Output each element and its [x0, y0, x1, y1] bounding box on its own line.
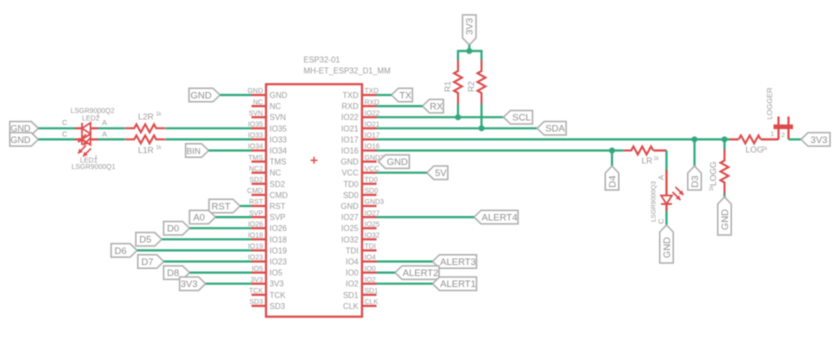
junction LOGG branch: [722, 136, 728, 142]
svg-text:D0: D0: [167, 224, 179, 235]
svg-text:1k: 1k: [762, 146, 768, 152]
svg-text:IO23: IO23: [270, 258, 288, 267]
svg-text:TXD: TXD: [365, 88, 379, 95]
svg-text:IO35: IO35: [270, 124, 288, 133]
svg-text:IO5: IO5: [270, 269, 283, 278]
svg-text:C: C: [62, 118, 68, 127]
svg-text:RST: RST: [270, 202, 286, 211]
svg-text:LOG: LOG: [746, 145, 764, 155]
wire D3 drop: [693, 139, 695, 166]
wire IO17 to LOG resistor: [730, 138, 739, 140]
svg-text:TDI: TDI: [365, 244, 376, 251]
U1 left pin IO23 row 16: [248, 255, 288, 267]
svg-text:L1R: L1R: [138, 145, 154, 155]
U1 left pin NC row 8: [249, 166, 281, 178]
wire LR to corner: [653, 149, 666, 151]
U1 left pin IO33 row 5: [248, 133, 288, 145]
net label A0: [190, 210, 216, 224]
svg-text:TCK: TCK: [270, 291, 287, 300]
svg-text:TCK: TCK: [249, 288, 263, 295]
wire LED3 cathode to GND: [665, 211, 667, 225]
svg-text:3V3: 3V3: [811, 135, 828, 146]
U1 right pin GND row 11: [341, 199, 384, 211]
wire D7 to U1 pin: [164, 260, 252, 262]
LED LED2: [75, 123, 98, 146]
svg-text:GND: GND: [720, 209, 731, 230]
U1 right pin IO32 row 14: [341, 233, 380, 245]
svg-text:GND: GND: [11, 135, 32, 145]
svg-text:TX: TX: [399, 90, 412, 101]
svg-text:A: A: [102, 130, 107, 139]
U1 left pin SVN row 3: [249, 110, 287, 122]
connector LOGGER 2-pin header: [774, 117, 794, 140]
net label ALERT3: [433, 255, 477, 269]
wire rail to R1: [457, 51, 459, 60]
svg-text:D5: D5: [139, 235, 151, 246]
IC U1 ESP32-01 body: [266, 84, 362, 317]
svg-text:D6: D6: [115, 246, 127, 257]
U1 left pin IO35 row 4: [248, 122, 288, 134]
net label SCL: [504, 110, 533, 124]
svg-text:IO21: IO21: [341, 124, 359, 133]
svg-text:SVN: SVN: [249, 110, 263, 117]
svg-text:SCL: SCL: [512, 113, 530, 124]
resistor R1: [443, 60, 463, 104]
net label D5: [136, 233, 162, 247]
U1 right pin IO25 row 13: [341, 221, 380, 233]
svg-text:SD1: SD1: [365, 288, 379, 295]
svg-text:3V3: 3V3: [251, 277, 264, 284]
wire L1R to U1 IO33: [165, 138, 251, 140]
net label GND (below LOGG): [718, 197, 732, 235]
wire U1 IO0 to ALERT2: [377, 272, 396, 274]
svg-text:TXD: TXD: [343, 91, 359, 100]
wire U1 IO22 to SCL: [377, 116, 504, 118]
svg-text:NC: NC: [253, 99, 263, 106]
wire D0 to U1 pin: [190, 227, 252, 229]
net label TX: [391, 88, 412, 102]
wire D8 to U1 pin: [190, 272, 252, 274]
wire RST to U1 pin: [240, 205, 252, 207]
svg-text:SDA: SDA: [545, 124, 565, 135]
wire U1 IO17 long net: [377, 138, 731, 140]
svg-text:C: C: [62, 130, 68, 139]
wire D6 to U1 pin: [137, 249, 251, 251]
U1 left pin IO34 row 6: [248, 144, 288, 156]
svg-text:SD2: SD2: [270, 180, 286, 189]
svg-text:3V3: 3V3: [270, 280, 285, 289]
resistor LOG: [739, 135, 764, 154]
net label GND (below LED3): [660, 225, 674, 263]
U1 left pin SVP row 12: [249, 210, 286, 222]
svg-text:C: C: [657, 218, 666, 224]
wire U1 IO2 to ALERT1: [377, 283, 433, 285]
svg-text:GND: GND: [387, 157, 408, 168]
U1 left pin TCK row 19: [249, 288, 286, 300]
svg-text:IO17: IO17: [341, 135, 359, 144]
svg-text:LOGG: LOGG: [708, 161, 718, 186]
wire LOG to LOGGER pin 1: [761, 138, 779, 140]
U1 right pin IO17 row 5: [341, 133, 380, 145]
IC U1 origin cross: [311, 157, 318, 164]
svg-text:SD2: SD2: [249, 177, 263, 184]
svg-text:1: 1: [97, 113, 100, 119]
svg-text:TD0: TD0: [365, 177, 378, 184]
wire U1 VCC to 5V: [377, 172, 427, 174]
wire pullup top rail: [457, 50, 483, 52]
svg-text:ALERT2: ALERT2: [403, 268, 439, 279]
U1 left pin 3V3 row 18: [251, 277, 285, 289]
wire corner down to LED3: [665, 151, 667, 173]
wire U1 TXD to TX: [377, 94, 392, 96]
svg-text:ALERT3: ALERT3: [440, 257, 476, 268]
wire 3V3 tag drop: [468, 45, 470, 51]
svg-text:3V3: 3V3: [181, 279, 198, 290]
svg-text:1: 1: [771, 131, 775, 138]
net label D3: [688, 166, 702, 190]
svg-text:SD0: SD0: [365, 188, 379, 195]
svg-text:LOGGER: LOGGER: [765, 87, 774, 120]
svg-text:SD0: SD0: [343, 191, 359, 200]
resistor L2R: [125, 111, 165, 132]
U1 right pin VCC row 8: [342, 166, 380, 178]
svg-text:IO2: IO2: [365, 277, 376, 284]
svg-text:1: 1: [95, 155, 98, 161]
wire LED1 anode to L1R: [98, 138, 125, 140]
U1 right pin IO4 row 16: [346, 255, 377, 267]
net label ALERT2: [395, 266, 439, 280]
svg-text:TMS: TMS: [270, 158, 287, 167]
junction D3 branch: [692, 136, 698, 142]
wire R2 to SDA net: [480, 104, 482, 128]
LED LED3: [661, 187, 684, 211]
svg-text:IO0: IO0: [346, 269, 359, 278]
svg-text:ALERT4: ALERT4: [482, 213, 518, 224]
net label D4: [605, 166, 619, 190]
svg-text:GND: GND: [190, 90, 211, 101]
svg-text:IO4: IO4: [365, 255, 376, 262]
svg-text:TD0: TD0: [343, 180, 359, 189]
svg-text:IO0: IO0: [365, 266, 376, 273]
U1 right pin SD1 row 19: [343, 288, 378, 300]
svg-text:IO4: IO4: [346, 258, 359, 267]
svg-text:SVP: SVP: [270, 213, 286, 222]
U1 left pin SD3 row 20: [249, 299, 285, 311]
U1 right pin SD0 row 10: [343, 188, 378, 200]
svg-text:RST: RST: [212, 201, 231, 212]
net label D0: [164, 221, 190, 235]
svg-text:A: A: [102, 118, 107, 127]
U1 right pin TDI row 15: [346, 244, 377, 256]
wire R1 to SCL net: [457, 104, 459, 117]
U1 left pin GND row 1: [247, 88, 287, 100]
svg-text:IO2: IO2: [346, 280, 359, 289]
svg-text:BIN: BIN: [187, 146, 201, 156]
svg-text:LSGR9000Q2: LSGR9000Q2: [71, 108, 115, 115]
wire U1 RXD to RX: [377, 105, 423, 107]
svg-text:SD1: SD1: [343, 291, 359, 300]
resistor LOGG: [708, 150, 729, 194]
svg-text:NC2: NC2: [249, 166, 263, 173]
svg-text:IO16: IO16: [341, 147, 359, 156]
svg-text:RX: RX: [430, 102, 444, 113]
svg-text:A: A: [657, 175, 666, 180]
U1 left pin IO19 row 15: [248, 244, 288, 256]
svg-text:D3: D3: [690, 175, 701, 187]
svg-text:3V3: 3V3: [465, 18, 476, 35]
net label GND (LED1 cathode): [10, 133, 39, 147]
wire U1 IO4 to ALERT3: [377, 260, 433, 262]
U1 left pin RST row 11: [249, 199, 286, 211]
svg-text:CMD: CMD: [247, 188, 263, 195]
junction R1/IO22: [455, 114, 461, 120]
svg-text:2: 2: [781, 132, 785, 139]
wire D4 drop: [611, 151, 613, 167]
LED LED1: [75, 134, 98, 157]
svg-text:VCC: VCC: [342, 169, 359, 178]
svg-text:CLK: CLK: [343, 302, 359, 311]
wire D5 to U1 pin: [162, 238, 252, 240]
svg-text:5V: 5V: [435, 168, 447, 179]
net label GND (top left): [189, 88, 220, 102]
svg-text:GND3: GND3: [365, 199, 385, 206]
U1 left pin CMD row 10: [247, 188, 288, 200]
net label 3V3: [180, 277, 206, 291]
svg-text:SD3: SD3: [270, 302, 286, 311]
net label D7: [138, 255, 164, 269]
wire LED2 anode to L2R: [98, 127, 125, 129]
junction R2/IO21: [479, 125, 485, 131]
wire LOGG to GND: [723, 194, 725, 198]
net label BIN: [186, 144, 209, 158]
svg-text:LSGR9000Q1: LSGR9000Q1: [72, 164, 116, 171]
svg-text:LR: LR: [642, 156, 653, 166]
resistor LR: [623, 147, 653, 166]
wire U1 IO21 to SDA: [377, 127, 538, 129]
net label D8: [164, 266, 190, 280]
svg-text:IO25: IO25: [341, 224, 359, 233]
wire GND to LED2 cathode: [38, 127, 75, 129]
net label RX: [422, 99, 443, 113]
svg-text:IO19: IO19: [270, 246, 288, 255]
svg-text:D8: D8: [167, 268, 179, 279]
svg-text:IO33: IO33: [270, 135, 288, 144]
junction 3V3 rail: [466, 48, 472, 54]
svg-text:IO18: IO18: [270, 235, 288, 244]
wire U1 IO27 to ALERT4: [377, 216, 475, 218]
svg-text:IO34: IO34: [270, 147, 288, 156]
net label ALERT1: [433, 277, 477, 291]
wire LOGGER pin2 to 3V3: [789, 138, 802, 140]
wire LOGG drop: [723, 139, 725, 149]
wire LED3 anode lead: [665, 170, 667, 188]
U1 right pin IO22 row 3: [341, 110, 380, 122]
svg-text:IO26: IO26: [270, 224, 288, 233]
svg-text:MH-ET_ESP32_D1_MM: MH-ET_ESP32_D1_MM: [304, 67, 391, 76]
net label SDA: [537, 122, 566, 136]
svg-text:GND: GND: [341, 158, 359, 167]
wire GND to U1 GND pin: [220, 94, 252, 96]
net label GND (LED2 cathode): [10, 122, 39, 136]
U1 right pin RXD row 2: [342, 99, 380, 111]
U1 left pin IO26 row 13: [248, 221, 288, 233]
svg-text:IO32: IO32: [365, 233, 380, 240]
svg-text:R2: R2: [466, 81, 476, 92]
svg-text:ESP32-01: ESP32-01: [304, 56, 341, 65]
svg-text:IO32: IO32: [341, 235, 359, 244]
U1 right pin TXD row 1: [343, 88, 379, 100]
svg-text:SD3: SD3: [249, 299, 263, 306]
net label 3V3 (far right): [801, 133, 830, 147]
wire A0 to U1 pin: [216, 216, 252, 218]
svg-text:D4: D4: [607, 175, 618, 187]
U1 right pin GND row 7: [341, 155, 384, 167]
U1 right pin IO0 row 17: [346, 266, 377, 278]
net label GND (VCC side): [378, 155, 409, 169]
svg-text:IO22: IO22: [341, 113, 359, 122]
wire BIN to U1 IO34: [209, 149, 252, 151]
U1 right pin IO27 row 12: [341, 210, 380, 222]
svg-text:IO5: IO5: [252, 266, 263, 273]
U1 right pin IO2 row 18: [346, 277, 377, 289]
svg-text:R1: R1: [443, 81, 453, 92]
net label ALERT4: [474, 210, 518, 224]
svg-text:1k: 1k: [709, 185, 715, 191]
wire rail to R2: [480, 51, 482, 60]
net label 5V: [427, 166, 448, 180]
U1 left pin IO18 row 14: [248, 233, 288, 245]
svg-text:1k: 1k: [156, 112, 162, 118]
wire U1 IO16 long net: [377, 149, 624, 151]
wire 3V3 to U1 pin: [206, 283, 252, 285]
svg-text:NC: NC: [270, 169, 282, 178]
junction D4 branch: [609, 148, 615, 154]
resistor R2: [466, 60, 486, 104]
svg-text:NC: NC: [270, 102, 282, 111]
svg-text:GND: GND: [341, 202, 359, 211]
svg-text:IO25: IO25: [365, 221, 380, 228]
U1 left pin IO5 row 17: [252, 266, 283, 278]
net label 3V3 (pullup supply): [463, 15, 477, 45]
svg-text:A0: A0: [193, 213, 205, 224]
svg-text:TMS: TMS: [248, 155, 263, 162]
net label RST: [209, 199, 240, 213]
U1 right pin IO21 row 4: [341, 122, 380, 134]
svg-text:CLK: CLK: [365, 299, 379, 306]
resistor L1R: [125, 135, 165, 155]
wire GND to LED1 cathode: [38, 138, 75, 140]
U1 right pin IO16 row 6: [341, 144, 380, 156]
svg-text:GND: GND: [270, 91, 288, 100]
svg-text:GND: GND: [662, 237, 673, 258]
wire L2R to U1 IO35: [165, 127, 251, 129]
U1 left pin NC row 2: [252, 99, 282, 111]
U1 left pin SD2 row 9: [249, 177, 285, 189]
svg-text:IO27: IO27: [341, 213, 359, 222]
U1 left pin TMS row 7: [248, 155, 286, 167]
svg-text:1k: 1k: [654, 156, 660, 162]
U1 right pin CLK row 20: [343, 299, 379, 311]
svg-text:L2R: L2R: [138, 111, 154, 121]
U1 right pin TD0 row 9: [343, 177, 377, 189]
svg-text:RXD: RXD: [342, 102, 359, 111]
svg-text:TDI: TDI: [346, 246, 359, 255]
svg-text:LSGR9000Q3: LSGR9000Q3: [651, 181, 658, 222]
svg-text:ALERT1: ALERT1: [440, 279, 476, 290]
svg-text:1k: 1k: [156, 145, 162, 151]
svg-text:CMD: CMD: [270, 191, 288, 200]
svg-text:D7: D7: [141, 257, 153, 268]
svg-text:SVN: SVN: [270, 113, 287, 122]
net label D6: [111, 244, 137, 258]
